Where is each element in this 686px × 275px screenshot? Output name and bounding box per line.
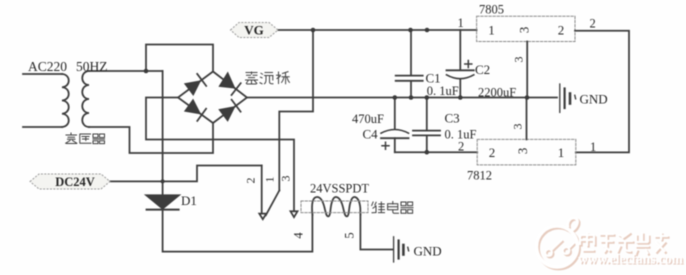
node rail C3 (425, 95, 430, 100)
wire secondary bottom to bridge bottom (89, 123, 213, 153)
ground symbol GND1 (560, 84, 576, 112)
svg-text:1: 1 (262, 177, 276, 183)
diode bridge D-topleft (185, 74, 206, 95)
svg-text:3: 3 (512, 57, 526, 63)
regulator U2 7812 box (477, 139, 576, 165)
svg-text:7805: 7805 (479, 3, 504, 17)
wire relay pin5 to ground (360, 215, 392, 250)
diode bridge D-topright (220, 73, 241, 95)
switch lever (266, 191, 280, 216)
wire top rail VG to 7805 pin1 (278, 29, 477, 31)
svg-text:C2: C2 (475, 62, 490, 77)
wire DC24V to switch pin2 (110, 166, 262, 182)
svg-text:24VSSPDT: 24VSSPDT (310, 182, 369, 196)
switch contact triangle 3 (291, 211, 298, 217)
svg-text:3: 3 (515, 148, 530, 155)
wire switch pin2 drop (261, 166, 263, 214)
svg-text:50HZ: 50HZ (76, 59, 108, 74)
svg-text:2: 2 (244, 178, 258, 184)
node rail C4 (393, 95, 398, 100)
wire 7812 pin3 to rail (526, 98, 528, 140)
svg-text:2: 2 (458, 139, 464, 153)
relay box (301, 201, 368, 213)
wire D1 to relay pin4 (163, 209, 313, 251)
regulator U1 7805 box (477, 16, 575, 41)
svg-text:1: 1 (458, 16, 464, 30)
ground symbol GND2 (394, 237, 409, 262)
diode bridge D-bottomleft (185, 100, 206, 121)
svg-text:C3: C3 (445, 111, 460, 126)
node rail 7805 pin3 (525, 95, 530, 100)
svg-text:2: 2 (558, 23, 565, 38)
switch contact triangle 2 (259, 214, 266, 220)
svg-text:470uF: 470uF (352, 112, 384, 126)
svg-text:2: 2 (590, 17, 596, 31)
capacitor C2 (447, 30, 474, 98)
transformer T primary bottom wire (23, 126, 62, 128)
svg-text:2200uF: 2200uF (478, 85, 516, 99)
watermark url (578, 252, 685, 268)
svg-text:C4: C4 (363, 127, 379, 142)
svg-text:1: 1 (488, 23, 495, 38)
capacitor C3 (413, 98, 440, 153)
node top rail aux (425, 28, 430, 33)
wire bridge left to switch contact 3 (146, 98, 294, 212)
flag VG (231, 23, 279, 38)
transformer T primary winding (62, 74, 69, 127)
flag DC24V (30, 174, 110, 189)
svg-text:4: 4 (292, 232, 306, 239)
svg-text:1: 1 (558, 145, 565, 160)
node top rail VG drop (311, 28, 316, 33)
wire 7805 pin3 to rail (526, 42, 528, 98)
svg-text:3: 3 (279, 176, 293, 182)
transformer T secondary winding (82, 71, 89, 127)
diode bridge D-bottomright (220, 100, 241, 121)
node bottom rail C3 (425, 150, 430, 155)
svg-text:www.elecfans.com: www.elecfans.com (578, 252, 684, 267)
node top rail C1 (408, 28, 413, 33)
svg-text:0. 1uF: 0. 1uF (427, 84, 459, 98)
svg-text:2: 2 (489, 145, 496, 160)
transformer T primary top wire (23, 73, 62, 75)
relay coil (312, 197, 360, 216)
capacitor C1 (396, 30, 423, 98)
wire loop from node to bridge top (146, 45, 213, 72)
node secondary-loop junction (144, 69, 149, 74)
bridge rectifier diamond outline (178, 72, 247, 124)
wire secondary to D1 (162, 71, 164, 195)
svg-text:GND: GND (414, 244, 442, 259)
svg-text:VG: VG (244, 23, 264, 38)
svg-text:D1: D1 (181, 193, 197, 208)
node rail C2 (458, 95, 463, 100)
svg-text:DC24V: DC24V (55, 175, 95, 189)
wire 7805 pin2 to 7812 pin1 (575, 31, 629, 153)
diode D1 (146, 195, 179, 209)
watermark logo elecfans (537, 218, 580, 269)
svg-text:7812: 7812 (467, 169, 492, 183)
svg-text:3: 3 (516, 27, 531, 34)
node DC24V D1 crossing (161, 179, 165, 183)
watermark text dianzifashaoyou (580, 232, 670, 256)
label bridge (zhengliuqiao) (245, 72, 290, 85)
wire main ground rail (247, 97, 557, 99)
svg-text:3: 3 (511, 124, 525, 130)
label relay (jidianqi) (372, 201, 414, 213)
label transformer (bianyaqi) (65, 133, 105, 144)
svg-text:GND: GND (580, 92, 608, 107)
svg-text:5: 5 (343, 232, 357, 238)
capacitor C4 (381, 98, 409, 153)
wire bottom rail to 7812 pin2 (395, 151, 477, 153)
wire secondary top (89, 70, 163, 72)
svg-text:1: 1 (590, 140, 596, 154)
svg-text:AC220: AC220 (28, 59, 67, 74)
node rail C1 (409, 95, 414, 100)
wire VG drop to switch pin1 (279, 30, 313, 191)
